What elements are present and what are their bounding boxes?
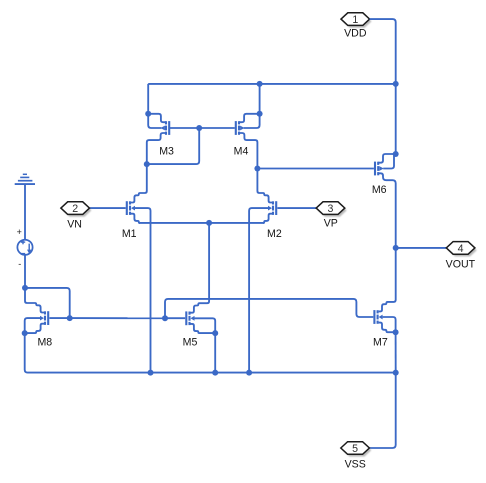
transistor M6 <box>375 162 384 176</box>
wire VSS rail down to VSS port <box>370 373 396 448</box>
port 4 VOUT <box>446 242 477 257</box>
wire M4 drain lead down to M2 drain node <box>239 133 257 169</box>
wire M1 drain staircase from node <box>131 164 147 202</box>
wire tail junction down to M5 drain staircase <box>191 223 210 313</box>
node VOUT junction <box>393 245 399 251</box>
wire M6 bulk lead up to VDD branch <box>383 156 394 169</box>
wire M2 gate to VP <box>277 207 316 209</box>
wire M5 gate lead <box>165 317 185 319</box>
node M3/M4 gate junction <box>196 125 202 131</box>
wire M5 bulk lead down to source node <box>195 318 216 333</box>
svg-text:M6: M6 <box>372 184 387 196</box>
wire M3 source lead to branch rail <box>148 114 166 122</box>
wire M7 bulk lead down to source node <box>383 317 396 332</box>
wire VSS rail <box>25 333 396 373</box>
wire M4 branch rail down from top rail to M4 bulk <box>244 84 260 128</box>
wire M4 source lead to branch rail <box>239 114 260 122</box>
svg-text:M4: M4 <box>234 146 249 158</box>
wire VOUT net down to M7 drain <box>379 248 396 312</box>
port 1 VDD <box>341 13 372 28</box>
node M2/M4 drain node <box>254 166 260 172</box>
svg-text:+: + <box>17 227 22 237</box>
transistor M2 <box>268 201 276 215</box>
svg-text:3: 3 <box>328 203 334 215</box>
svg-text:VOUT: VOUT <box>446 258 476 270</box>
wire M7 source lead to source node <box>379 323 396 333</box>
node VSS rail: M1 bulk <box>148 370 154 376</box>
node M8 drain node <box>22 285 28 291</box>
svg-text:VN: VN <box>67 218 82 230</box>
node VSS rail: M2 bulk <box>246 370 252 376</box>
svg-text:1: 1 <box>352 14 358 26</box>
wire M3 gate lead <box>170 127 200 129</box>
wire M8 gate lead <box>49 317 69 319</box>
ground <box>15 174 35 184</box>
svg-text:M3: M3 <box>159 146 174 158</box>
node VDD rail branch to M4 <box>257 81 263 87</box>
node M8 source/bulk node <box>22 330 28 336</box>
wire M1 bulk lead down to VSS rail <box>135 208 151 373</box>
node tail junction <box>206 220 212 226</box>
svg-text:M8: M8 <box>37 336 52 348</box>
port 3 VP <box>316 202 346 217</box>
node M8 gate junction <box>67 315 73 321</box>
wire M2 drain node to M6 gate <box>257 168 374 170</box>
svg-text:VSS: VSS <box>345 458 366 470</box>
svg-text:M5: M5 <box>183 336 198 348</box>
wire VDD top rail <box>148 83 396 85</box>
svg-text:5: 5 <box>352 443 358 455</box>
node VDD rail T-junction right <box>393 81 399 87</box>
port 2 VN <box>61 202 92 217</box>
wire M7 source node down to VSS rail <box>395 332 397 372</box>
port 5 VSS <box>341 442 372 457</box>
wire gate rail bypass over M5 to M7 gate <box>165 299 373 318</box>
transistor M8 <box>40 311 48 325</box>
wire M2 bulk lead down to VSS rail <box>249 208 268 373</box>
wire current source to M8 drain node <box>24 255 26 288</box>
wire M2 drain staircase from node <box>257 169 272 203</box>
wire M3 branch rail down from top rail to M3 bulk <box>148 84 161 128</box>
node M1/M3 drain node <box>144 161 150 167</box>
wire M8 drain staircase <box>25 288 44 313</box>
wire diff pair tail rail <box>139 222 264 224</box>
wire M8 source lead to source node <box>25 324 44 333</box>
transistor M5 <box>186 311 194 325</box>
svg-text:2: 2 <box>72 203 78 215</box>
node M7 source/bulk node <box>393 329 399 335</box>
wire ground to current source <box>24 185 26 240</box>
node VSS rail: M7/VSS junction <box>393 370 399 376</box>
wire gate junction down and left to M1 drain node <box>147 128 199 164</box>
wire M6 source lead to VDD branch <box>378 154 396 163</box>
wire VDD port to rail corner, down to M6 source node <box>370 19 396 154</box>
wire mirror gate rail M8 to M5 <box>70 317 165 319</box>
wire M2 source lead to tail rail <box>263 214 272 223</box>
wire M5 source lead to source node <box>191 324 216 333</box>
wire M5 source node down to VSS rail <box>214 333 216 373</box>
wire VN to M1 gate <box>90 207 126 209</box>
wire M8 bulk lead down to source node <box>25 318 40 333</box>
transistor M3 <box>161 121 170 135</box>
wire VOUT junction to port <box>396 247 447 249</box>
svg-text:M2: M2 <box>267 228 282 240</box>
node M5 gate junction <box>162 315 168 321</box>
wire M3 drain lead down to M1 drain node <box>147 133 166 164</box>
svg-text:-: - <box>18 259 21 269</box>
transistor M1 <box>127 201 135 215</box>
wire M6 drain lead down to VOUT net <box>378 173 396 248</box>
svg-text:M1: M1 <box>122 228 137 240</box>
current source IREF <box>17 227 33 269</box>
svg-text:VDD: VDD <box>344 28 367 40</box>
transistor M7 <box>374 310 382 324</box>
svg-text:4: 4 <box>458 243 464 255</box>
svg-text:M7: M7 <box>373 336 388 348</box>
svg-text:VP: VP <box>324 217 338 229</box>
node M4 source junction on branch rail <box>257 111 263 117</box>
node M6 source junction on VDD branch <box>393 151 399 157</box>
wire M8 drain node over to gate column <box>25 288 70 318</box>
node VSS rail: M5 node <box>212 370 218 376</box>
transistor M4 <box>236 121 245 135</box>
wire M1 source lead to tail rail <box>131 214 140 223</box>
node M5 source/bulk node <box>212 330 218 336</box>
wire M4 gate lead <box>199 127 235 129</box>
node M3 source junction on branch rail <box>145 111 151 117</box>
